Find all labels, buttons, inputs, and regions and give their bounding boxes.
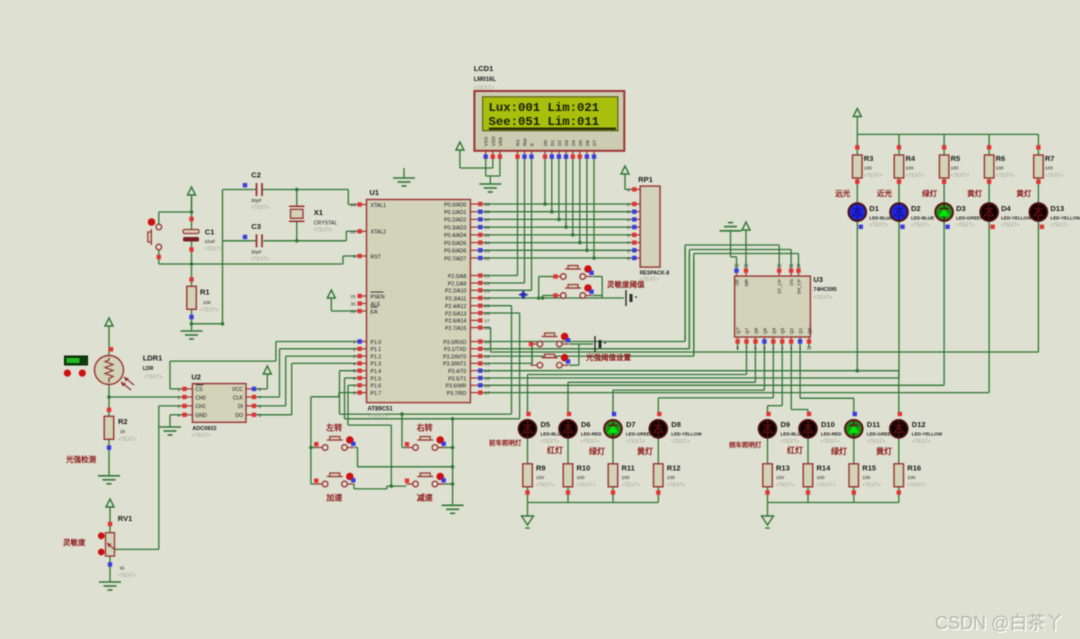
svg-text:远光: 远光	[835, 188, 850, 198]
svg-text:19: 19	[350, 203, 356, 209]
svg-text:LDR1: LDR1	[143, 354, 163, 363]
svg-text:34: 34	[484, 241, 490, 247]
svg-text:LED-RED: LED-RED	[821, 432, 842, 437]
svg-text:<TEXT>: <TEXT>	[191, 433, 210, 439]
svg-text:P0.6/AD6: P0.6/AD6	[444, 249, 466, 255]
svg-text:29: 29	[350, 294, 356, 300]
svg-text:灵敏度阈值: 灵敏度阈值	[607, 279, 645, 289]
svg-text:LCD1: LCD1	[474, 64, 494, 73]
svg-text:R5: R5	[951, 154, 961, 163]
svg-text:<TEXT>: <TEXT>	[368, 414, 388, 420]
svg-text:R13: R13	[776, 464, 790, 473]
svg-text:LED-BLUE: LED-BLUE	[869, 216, 892, 221]
svg-text:P3.2/INT0: P3.2/INT0	[443, 354, 466, 360]
svg-text:红灯: 红灯	[547, 445, 563, 455]
svg-text:5: 5	[353, 369, 356, 375]
svg-text:8: 8	[627, 248, 630, 254]
svg-text:D12: D12	[912, 420, 926, 429]
svg-text:1k: 1k	[119, 566, 125, 572]
svg-text:P2.7/A15: P2.7/A15	[445, 326, 466, 332]
svg-text:XTAL2: XTAL2	[371, 230, 387, 236]
svg-text:P0.4/AD4: P0.4/AD4	[444, 233, 466, 239]
svg-text:LED-BLUE: LED-BLUE	[911, 216, 934, 221]
svg-text:<TEXT>: <TEXT>	[813, 295, 832, 301]
svg-text:24: 24	[484, 296, 490, 302]
svg-text:P2.4/A12: P2.4/A12	[445, 304, 466, 310]
svg-text:10: 10	[744, 263, 749, 268]
svg-text:100: 100	[864, 166, 872, 172]
svg-text:U2: U2	[191, 373, 201, 382]
svg-text:P2.6/A14: P2.6/A14	[445, 319, 466, 325]
svg-text:<TEXT>: <TEXT>	[821, 439, 840, 445]
svg-text:D2: D2	[557, 140, 562, 146]
svg-text:22: 22	[484, 281, 490, 287]
svg-text:100: 100	[536, 475, 544, 481]
svg-text:OE: OE	[735, 279, 740, 286]
svg-text:14: 14	[789, 263, 794, 268]
svg-text:C1: C1	[205, 228, 215, 237]
svg-text:<TEXT>: <TEXT>	[622, 483, 641, 489]
svg-text:VCC: VCC	[232, 387, 243, 393]
svg-text:D9: D9	[781, 420, 791, 429]
svg-text:1: 1	[627, 187, 630, 193]
svg-text:18: 18	[350, 229, 356, 235]
svg-text:38: 38	[484, 210, 490, 216]
svg-text:<TEXT>: <TEXT>	[907, 483, 926, 489]
svg-text:光强阈值设置: 光强阈值设置	[585, 352, 631, 362]
svg-text:30pF: 30pF	[251, 198, 262, 204]
svg-text:<TEXT>: <TEXT>	[996, 173, 1015, 179]
svg-text:P3.4/T0: P3.4/T0	[448, 369, 466, 375]
svg-text:100: 100	[577, 475, 585, 481]
svg-text:Q7': Q7'	[736, 327, 741, 334]
svg-text:<TEXT>: <TEXT>	[581, 439, 600, 445]
svg-text:Q2: Q2	[789, 327, 794, 334]
svg-text:R14: R14	[817, 464, 832, 473]
svg-text:16: 16	[484, 383, 490, 389]
svg-text:MR: MR	[744, 278, 749, 286]
svg-text:绿灯: 绿灯	[831, 446, 847, 456]
svg-text:100: 100	[776, 475, 784, 481]
svg-text:P2.3/A11: P2.3/A11	[445, 296, 466, 302]
svg-text:CH0: CH0	[195, 395, 205, 401]
svg-text:8: 8	[259, 387, 262, 393]
svg-text:100: 100	[667, 475, 675, 481]
svg-text:LED-GREEN: LED-GREEN	[956, 216, 984, 221]
svg-text:R1: R1	[200, 288, 210, 297]
svg-text:绿灯: 绿灯	[922, 188, 937, 198]
svg-text:P1.0: P1.0	[371, 340, 382, 346]
svg-text:D6: D6	[585, 140, 590, 146]
svg-text:3: 3	[177, 404, 180, 410]
svg-text:12: 12	[484, 354, 490, 360]
svg-text:黄灯: 黄灯	[876, 446, 892, 456]
svg-text:Q0: Q0	[807, 327, 812, 334]
svg-text:P1.4: P1.4	[371, 369, 382, 375]
svg-text:9: 9	[627, 256, 630, 262]
svg-text:100: 100	[951, 166, 959, 172]
svg-text:CLK: CLK	[233, 395, 244, 401]
svg-text:D10: D10	[821, 420, 835, 429]
svg-text:R15: R15	[862, 464, 876, 473]
svg-text:GND: GND	[195, 413, 207, 419]
svg-text:D2: D2	[911, 204, 921, 213]
svg-text:P0.1/AD1: P0.1/AD1	[444, 210, 466, 216]
svg-text:<TEXT>: <TEXT>	[867, 439, 886, 445]
svg-text:DI: DI	[238, 404, 243, 410]
svg-text:<TEXT>: <TEXT>	[1045, 173, 1064, 179]
svg-text:100: 100	[996, 166, 1004, 172]
svg-text:12: 12	[777, 263, 782, 268]
svg-text:RP1: RP1	[638, 175, 653, 184]
svg-text:30pF: 30pF	[251, 250, 262, 256]
svg-text:减速: 减速	[417, 493, 433, 503]
svg-text:D11: D11	[867, 420, 880, 429]
svg-text:P0.5/AD5: P0.5/AD5	[444, 241, 466, 247]
svg-text:2: 2	[627, 202, 630, 208]
svg-text:27: 27	[484, 318, 490, 324]
svg-text:Q6: Q6	[754, 327, 759, 334]
svg-text:<TEXT>: <TEXT>	[862, 483, 881, 489]
svg-text:15: 15	[484, 376, 490, 382]
svg-text:CRYSTAL: CRYSTAL	[314, 221, 338, 227]
svg-text:LDR: LDR	[143, 366, 154, 372]
svg-text:RESPACK-8: RESPACK-8	[640, 271, 670, 277]
svg-text:P3.0/RXD: P3.0/RXD	[443, 340, 466, 346]
svg-text:<TEXT>: <TEXT>	[951, 173, 970, 179]
svg-text:3: 3	[627, 210, 630, 216]
svg-text:XTAL1: XTAL1	[371, 203, 387, 209]
svg-text:P3.7/RD: P3.7/RD	[447, 391, 467, 397]
svg-text:<TEXT>: <TEXT>	[118, 437, 137, 443]
svg-text:D1: D1	[550, 140, 555, 146]
svg-text:黄灯: 黄灯	[1016, 188, 1031, 198]
svg-text:P2.1/A9: P2.1/A9	[448, 281, 467, 287]
svg-text:13: 13	[734, 263, 739, 268]
svg-text:5: 5	[627, 225, 630, 231]
svg-text:Q7: Q7	[745, 327, 750, 334]
svg-text:15: 15	[807, 346, 812, 351]
svg-text:32: 32	[484, 256, 490, 262]
svg-text:10uF: 10uF	[205, 239, 216, 245]
svg-text:23: 23	[484, 288, 490, 294]
svg-text:前车照明灯: 前车照明灯	[489, 438, 522, 447]
svg-text:E: E	[530, 143, 535, 146]
svg-text:1: 1	[353, 340, 356, 346]
svg-text:LED-YELLOW: LED-YELLOW	[1050, 216, 1080, 221]
svg-text:<TEXT>: <TEXT>	[1001, 223, 1020, 229]
svg-text:<TEXT>: <TEXT>	[956, 223, 975, 229]
svg-text:LED-RED: LED-RED	[581, 432, 602, 437]
svg-text:R7: R7	[1045, 154, 1055, 163]
svg-text:R9: R9	[536, 464, 546, 473]
svg-text:100: 100	[622, 475, 630, 481]
svg-text:P1.2: P1.2	[371, 354, 382, 360]
svg-text:<TEXT>: <TEXT>	[314, 228, 333, 234]
svg-text:D8: D8	[671, 420, 681, 429]
svg-text:<TEXT>: <TEXT>	[204, 247, 223, 253]
svg-text:11: 11	[484, 347, 489, 353]
svg-text:<TEXT>: <TEXT>	[667, 483, 686, 489]
svg-text:DO: DO	[235, 413, 243, 419]
svg-text:右转: 右转	[416, 423, 433, 433]
svg-text:25: 25	[484, 304, 490, 310]
svg-text:7: 7	[627, 241, 630, 247]
svg-text:<TEXT>: <TEXT>	[671, 439, 690, 445]
svg-text:LED-YELLOW: LED-YELLOW	[671, 432, 702, 437]
svg-text:VEE: VEE	[498, 137, 503, 146]
svg-text:28: 28	[484, 326, 490, 332]
svg-text:<TEXT>: <TEXT>	[817, 483, 836, 489]
svg-text:绿灯: 绿灯	[589, 446, 605, 456]
svg-text:6: 6	[353, 376, 356, 382]
svg-text:7: 7	[259, 395, 262, 401]
svg-text:100: 100	[862, 475, 870, 481]
svg-text:P3.1/TXD: P3.1/TXD	[444, 347, 467, 353]
svg-text:7: 7	[353, 383, 356, 389]
svg-text:100: 100	[907, 475, 915, 481]
svg-text:<TEXT>: <TEXT>	[906, 173, 925, 179]
svg-text:Q5: Q5	[762, 327, 767, 334]
svg-text:ST_CP: ST_CP	[777, 279, 782, 294]
svg-text:D0: D0	[543, 140, 548, 146]
svg-text:<TEXT>: <TEXT>	[781, 439, 800, 445]
svg-text:灵敏度: 灵敏度	[63, 537, 86, 547]
svg-text:PSEN: PSEN	[371, 294, 385, 300]
svg-text:Q4: Q4	[771, 327, 776, 334]
svg-text:倒车照明灯: 倒车照明灯	[728, 440, 762, 449]
svg-text:U1: U1	[370, 188, 380, 197]
svg-text:P1.3: P1.3	[371, 362, 382, 368]
svg-text:光强检测: 光强检测	[65, 454, 96, 464]
svg-text:8: 8	[353, 391, 356, 397]
svg-text:4: 4	[353, 361, 356, 367]
svg-text:6: 6	[259, 404, 262, 410]
svg-text:36: 36	[484, 225, 490, 231]
svg-text:21: 21	[484, 274, 490, 280]
svg-text:R6: R6	[996, 154, 1006, 163]
svg-text:100: 100	[906, 166, 914, 172]
svg-text:P3.5/T1: P3.5/T1	[448, 376, 466, 382]
svg-text:C2: C2	[251, 171, 261, 180]
svg-text:D4: D4	[1001, 204, 1011, 213]
svg-text:100: 100	[1045, 166, 1053, 172]
svg-text:P0.3/AD3: P0.3/AD3	[444, 225, 466, 231]
svg-text:CSDN @白茶丫: CSDN @白茶丫	[935, 613, 1063, 633]
svg-text:P3.6/WR: P3.6/WR	[446, 384, 467, 390]
svg-text:<TEXT>: <TEXT>	[864, 173, 883, 179]
svg-text:11: 11	[796, 263, 801, 268]
svg-text:红灯: 红灯	[787, 445, 803, 455]
svg-text:<TEXT>: <TEXT>	[118, 573, 137, 579]
svg-text:31: 31	[350, 309, 356, 315]
svg-text:14: 14	[484, 369, 490, 375]
svg-text:D1: D1	[869, 204, 879, 213]
svg-text:<TEXT>: <TEXT>	[541, 439, 560, 445]
svg-text:<TEXT>: <TEXT>	[912, 439, 931, 445]
svg-text:10: 10	[484, 340, 490, 346]
svg-text:37: 37	[484, 217, 490, 223]
svg-text:RS: RS	[516, 140, 521, 146]
svg-text:X1: X1	[314, 208, 323, 217]
svg-text:VSS: VSS	[484, 137, 489, 146]
svg-text:D5: D5	[541, 420, 551, 429]
svg-text:CS: CS	[195, 387, 203, 393]
svg-text:LM016L: LM016L	[474, 77, 497, 83]
svg-text:6: 6	[627, 233, 630, 239]
svg-text:1: 1	[177, 387, 180, 393]
svg-text:EA: EA	[371, 309, 378, 315]
svg-text:<TEXT>: <TEXT>	[577, 483, 596, 489]
svg-text:26: 26	[484, 311, 490, 317]
svg-text:<TEXT>: <TEXT>	[200, 308, 219, 314]
svg-text:Lux:001 Lim:021: Lux:001 Lim:021	[489, 101, 600, 115]
svg-text:黄灯: 黄灯	[967, 188, 982, 198]
svg-text:Q3: Q3	[780, 327, 785, 334]
svg-text:<TEXT>: <TEXT>	[251, 257, 270, 263]
svg-text:35: 35	[484, 233, 490, 239]
svg-text:D7: D7	[592, 140, 597, 146]
svg-text:<TEXT>: <TEXT>	[1050, 223, 1069, 229]
svg-text:P2.0/A8: P2.0/A8	[448, 274, 467, 280]
svg-text:30: 30	[350, 302, 356, 308]
svg-text:近光: 近光	[877, 188, 892, 198]
svg-text:CH1: CH1	[195, 404, 205, 410]
svg-text:<TEXT>: <TEXT>	[626, 439, 645, 445]
svg-text:4: 4	[627, 217, 630, 223]
svg-text:R4: R4	[906, 154, 916, 163]
svg-text:33: 33	[484, 248, 490, 254]
svg-text:39: 39	[484, 202, 490, 208]
svg-text:RW: RW	[523, 138, 528, 146]
svg-text:10k: 10k	[203, 300, 211, 306]
svg-text:<TEXT>: <TEXT>	[474, 86, 494, 92]
svg-text:P1.6: P1.6	[371, 384, 382, 390]
svg-text:P1.7: P1.7	[371, 391, 382, 397]
svg-text:1k: 1k	[120, 429, 126, 435]
svg-text:100: 100	[817, 475, 825, 481]
svg-text:R2: R2	[118, 417, 128, 426]
svg-text:74HC595: 74HC595	[813, 287, 836, 293]
svg-text:P1.5: P1.5	[371, 376, 382, 382]
svg-text:DS: DS	[789, 279, 794, 285]
svg-text:13: 13	[484, 361, 490, 367]
svg-text:RST: RST	[371, 254, 382, 260]
svg-text:P1.1: P1.1	[371, 347, 382, 353]
svg-text:P0.7/AD7: P0.7/AD7	[444, 256, 466, 262]
svg-text:5: 5	[259, 413, 262, 419]
svg-text:D3: D3	[956, 204, 966, 213]
svg-text:RV1: RV1	[118, 514, 132, 523]
svg-text:3: 3	[353, 354, 356, 360]
svg-text:R16: R16	[907, 464, 921, 473]
svg-text:LED-YELLOW: LED-YELLOW	[1001, 216, 1032, 221]
svg-text:C3: C3	[251, 222, 261, 231]
svg-text:<TEXT>: <TEXT>	[869, 223, 888, 229]
svg-text:D3: D3	[564, 140, 569, 146]
svg-text:LED-YELLOW: LED-YELLOW	[912, 432, 943, 437]
svg-text:左转: 左转	[325, 423, 342, 433]
svg-text:17: 17	[484, 391, 490, 397]
svg-text:2: 2	[177, 395, 180, 401]
svg-text:Q1: Q1	[798, 327, 803, 334]
svg-text:VDD: VDD	[491, 136, 496, 146]
svg-text:R11: R11	[622, 464, 635, 473]
svg-text:D6: D6	[581, 420, 591, 429]
svg-text:<TEXT>: <TEXT>	[911, 223, 930, 229]
svg-text:U3: U3	[813, 275, 823, 284]
svg-text:ADC0832: ADC0832	[192, 426, 216, 432]
svg-text:加速: 加速	[325, 493, 342, 503]
svg-text:P2.5/A13: P2.5/A13	[445, 311, 466, 317]
svg-text:AT89C51: AT89C51	[368, 407, 394, 413]
svg-text:P2.2/A10: P2.2/A10	[445, 289, 466, 295]
svg-text:<TEXT>: <TEXT>	[536, 483, 555, 489]
svg-text:4: 4	[177, 413, 180, 419]
svg-text:R12: R12	[667, 464, 681, 473]
svg-text:黄灯: 黄灯	[637, 446, 653, 456]
svg-text:P0.0/AD0: P0.0/AD0	[444, 202, 466, 208]
svg-text:2: 2	[353, 347, 356, 353]
svg-text:D4: D4	[571, 140, 576, 146]
svg-text:<TEXT>: <TEXT>	[776, 483, 795, 489]
svg-text:D13: D13	[1050, 204, 1064, 213]
svg-text:9: 9	[353, 254, 356, 260]
svg-text:D5: D5	[578, 140, 583, 146]
svg-text:R3: R3	[864, 154, 874, 163]
svg-text:<TEXT>: <TEXT>	[144, 375, 163, 381]
svg-text:P0.2/AD2: P0.2/AD2	[444, 218, 466, 224]
svg-text:R10: R10	[577, 464, 591, 473]
svg-text:See:051 Lim:011: See:051 Lim:011	[489, 115, 600, 129]
svg-text:<TEXT>: <TEXT>	[251, 205, 270, 211]
svg-text:D7: D7	[626, 420, 636, 429]
svg-text:P3.3/INT1: P3.3/INT1	[443, 362, 466, 368]
svg-text:SH_CP: SH_CP	[797, 279, 802, 294]
